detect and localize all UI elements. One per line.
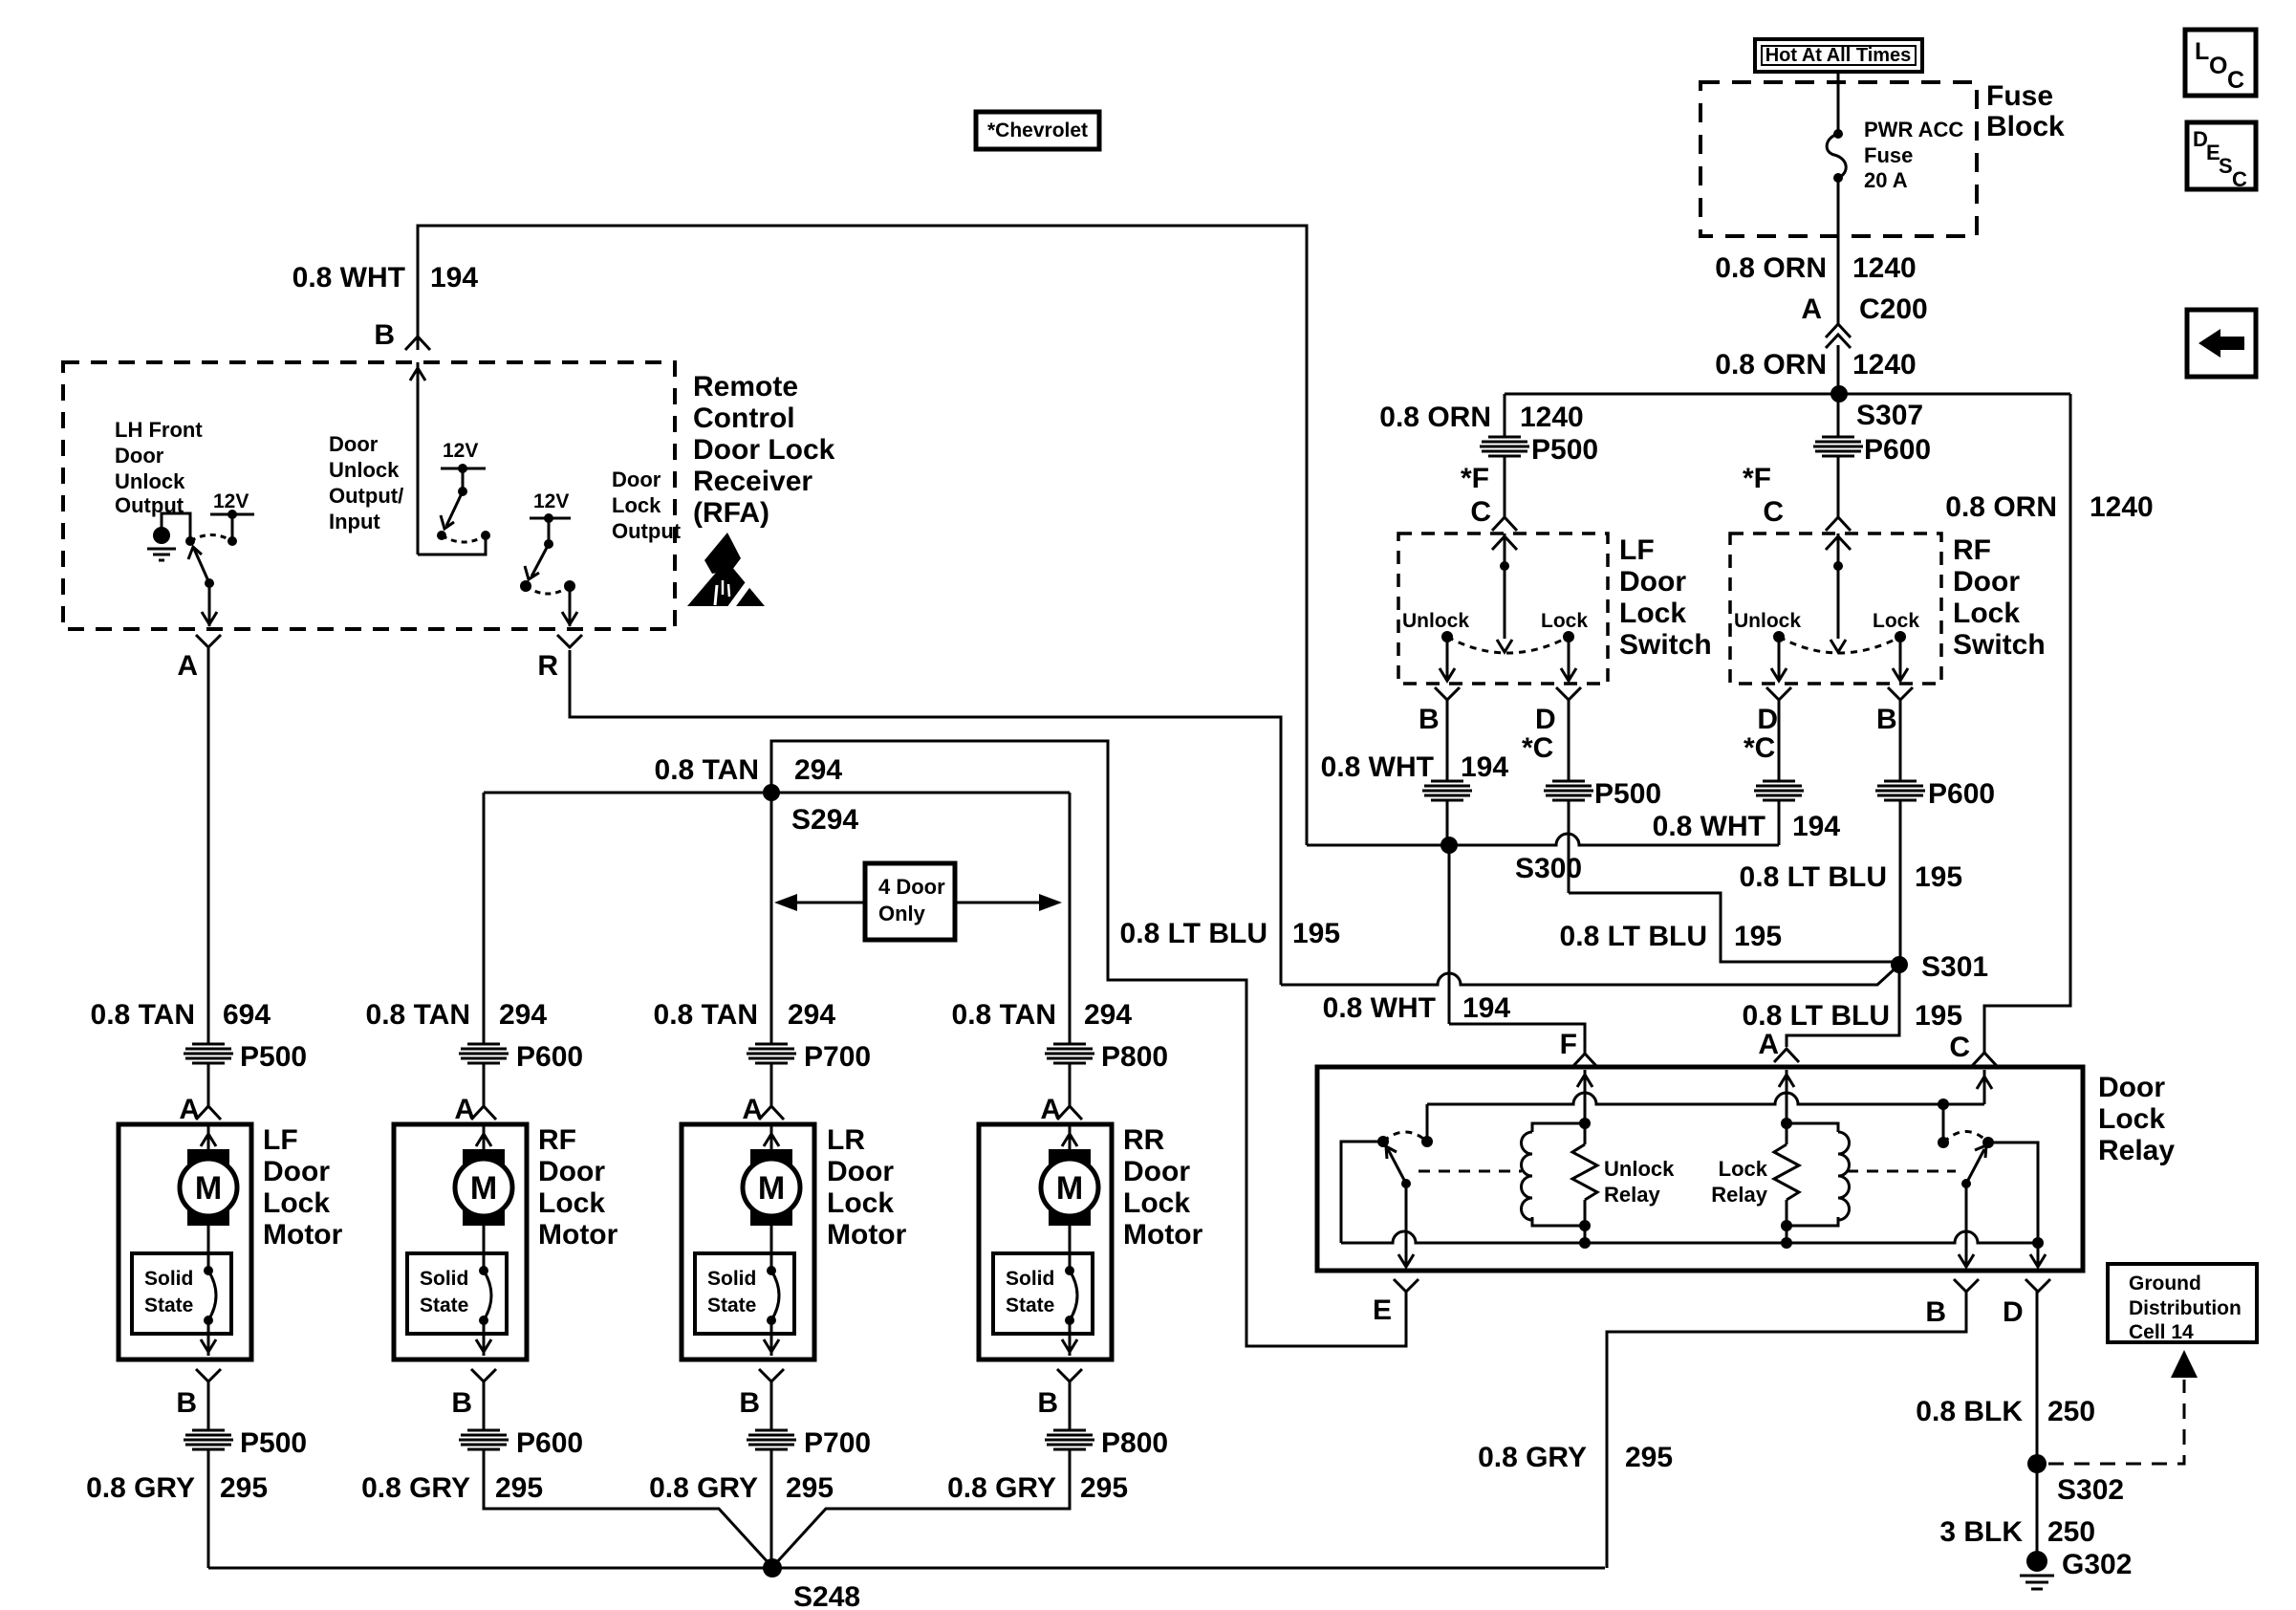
- svg-text:*F: *F: [1461, 463, 1489, 494]
- terminal D (relay): [2003, 1279, 2050, 1328]
- 12V source (LH unlock switch): [210, 490, 254, 546]
- svg-text:State: State: [420, 1295, 468, 1316]
- svg-text:A: A: [1801, 294, 1822, 325]
- svg-text:LF: LF: [263, 1124, 298, 1156]
- svg-text:Door: Door: [827, 1156, 894, 1187]
- LOC page tab: [2185, 30, 2256, 96]
- svg-text:295: 295: [495, 1472, 543, 1504]
- svg-text:Unlock: Unlock: [1402, 610, 1469, 632]
- splice S302: [2027, 1454, 2124, 1506]
- svg-text:D: D: [1757, 704, 1778, 735]
- svg-text:PWR ACC: PWR ACC: [1864, 118, 1963, 141]
- svg-text:Fuse: Fuse: [1986, 80, 2053, 112]
- 12V source (door lock output switch): [530, 490, 571, 549]
- svg-text:*F: *F: [1743, 463, 1771, 494]
- terminal C (relay): [1949, 1032, 1997, 1066]
- svg-text:Door: Door: [1619, 566, 1686, 598]
- terminal R (receiver): [537, 635, 582, 682]
- svg-text:A: A: [1040, 1094, 1061, 1125]
- svg-text:0.8 GRY: 0.8 GRY: [947, 1472, 1056, 1504]
- svg-text:P700: P700: [804, 1041, 871, 1073]
- svg-text:295: 295: [1625, 1442, 1673, 1473]
- svg-text:0.8 GRY: 0.8 GRY: [649, 1472, 758, 1504]
- svg-text:C: C: [1949, 1032, 1970, 1063]
- svg-text:R: R: [537, 650, 558, 682]
- svg-text:0.8 LT BLU: 0.8 LT BLU: [1120, 918, 1267, 949]
- svg-text:B: B: [176, 1387, 197, 1419]
- svg-text:Remote: Remote: [693, 371, 798, 402]
- svg-text:(RFA): (RFA): [693, 497, 769, 529]
- wire LF-D lt blu 195 to S301: [1544, 700, 1898, 962]
- ground G302: [2020, 1549, 2132, 1589]
- LH front door unlock output label: [115, 418, 203, 517]
- svg-text:Solid: Solid: [1006, 1268, 1054, 1290]
- svg-text:M: M: [195, 1170, 222, 1207]
- svg-text:0.8 LT BLU: 0.8 LT BLU: [1560, 921, 1707, 952]
- svg-text:P500: P500: [1594, 778, 1661, 810]
- wire LF-B GRY 295 to S248: [86, 1382, 307, 1568]
- svg-text:Door: Door: [329, 432, 379, 456]
- svg-text:State: State: [707, 1295, 756, 1316]
- wire LR-B GRY 295 to S248: [649, 1382, 871, 1568]
- svg-text:Switch: Switch: [1619, 629, 1712, 661]
- Fuse Block label: [1986, 80, 2065, 142]
- svg-text:694: 694: [223, 999, 271, 1031]
- svg-text:Lock: Lock: [1541, 610, 1588, 632]
- connector P500 (LF switch C): [1480, 434, 1598, 466]
- svg-text:Receiver: Receiver: [693, 466, 812, 497]
- svg-text:294: 294: [788, 999, 835, 1031]
- wire S294 line to RR motor TAN 294: [952, 793, 1133, 1044]
- fuse PWR ACC 20A: [1827, 118, 1963, 192]
- svg-text:Unlock: Unlock: [1734, 610, 1801, 632]
- Ground Distribution Cell 14 box: [2108, 1264, 2257, 1343]
- svg-text:P500: P500: [1531, 434, 1598, 466]
- svg-text:Lock: Lock: [263, 1187, 330, 1219]
- relay inner top wire (C to switches): [1427, 1093, 1984, 1142]
- relay bottom bus: [1341, 1231, 2038, 1249]
- svg-text:C: C: [1763, 496, 1784, 528]
- RF switch common feed: [1826, 533, 1851, 652]
- svg-text:B: B: [451, 1387, 472, 1419]
- connector P500 (LF motor A): [184, 1041, 307, 1106]
- relay right contact to D lead: [1988, 1142, 2046, 1267]
- svg-text:Lock: Lock: [1719, 1157, 1768, 1181]
- svg-text:Solid: Solid: [420, 1268, 468, 1290]
- Door Lock Relay box: [1317, 1067, 2083, 1271]
- terminal A (relay): [1758, 1029, 1799, 1062]
- svg-text:Door: Door: [263, 1156, 330, 1187]
- wire: battery feed into fuse block: [1837, 72, 1840, 134]
- svg-text:E: E: [1373, 1295, 1392, 1326]
- wire S301 to relay A: [1743, 965, 1963, 1047]
- LF motor M: [180, 1126, 237, 1271]
- svg-text:0.8 GRY: 0.8 GRY: [86, 1472, 195, 1504]
- svg-text:Lock: Lock: [1619, 598, 1686, 629]
- svg-text:195: 195: [1915, 1000, 1962, 1032]
- terminal F (relay): [1560, 1029, 1597, 1067]
- svg-text:S: S: [2219, 154, 2233, 178]
- relay right switch (lock side): [1938, 1132, 1994, 1268]
- terminal C (RF switch): [1763, 496, 1851, 531]
- RF switch unlock output arrow: [1771, 637, 1787, 681]
- svg-text:295: 295: [786, 1472, 834, 1504]
- svg-text:State: State: [144, 1295, 193, 1316]
- RF motor M: [455, 1126, 512, 1271]
- svg-text:1240: 1240: [1852, 252, 1917, 284]
- svg-text:Ground: Ground: [2129, 1273, 2201, 1295]
- svg-text:RF: RF: [538, 1124, 576, 1156]
- LR Door Lock Motor box: [682, 1124, 907, 1360]
- svg-text:Output: Output: [612, 519, 682, 543]
- wire S300 to relay F: [1323, 845, 1585, 1054]
- lock relay resistor: [1711, 1123, 1799, 1243]
- svg-text:RR: RR: [1123, 1124, 1165, 1156]
- wire below P600 to C: [1837, 456, 1840, 517]
- svg-text:Motor: Motor: [538, 1219, 618, 1251]
- svg-text:12V: 12V: [533, 490, 569, 512]
- svg-text:P500: P500: [240, 1041, 307, 1073]
- svg-text:Lock: Lock: [538, 1187, 605, 1219]
- svg-text:0.8 GRY: 0.8 GRY: [361, 1472, 470, 1504]
- svg-text:Fuse: Fuse: [1864, 143, 1913, 167]
- label 0.8 ORN 1240: [1715, 252, 1916, 284]
- svg-text:S294: S294: [791, 804, 858, 836]
- svg-text:Relay: Relay: [1711, 1183, 1767, 1207]
- svg-text:G302: G302: [2062, 1549, 2132, 1580]
- wire relay B GRY 295 to S248: [1478, 1292, 1966, 1568]
- LF switch unlock output arrow: [1440, 637, 1455, 681]
- svg-text:Door: Door: [1953, 566, 2020, 598]
- Fuse Block (dashed): [1700, 82, 1977, 236]
- svg-text:B: B: [374, 319, 395, 351]
- svg-text:P600: P600: [516, 1041, 583, 1073]
- svg-text:S301: S301: [1921, 951, 1988, 983]
- wire RF-D white 194 joins S300 line: [1653, 700, 1841, 845]
- connector P600 (RF motor A): [459, 1041, 583, 1106]
- door lock output label: [612, 468, 682, 543]
- Hot At All Times box: [1755, 39, 1922, 72]
- door unlock output/input label: [329, 432, 403, 533]
- LF switch label: [1619, 534, 1712, 661]
- svg-text:250: 250: [2047, 1516, 2095, 1548]
- svg-text:B: B: [1876, 704, 1897, 735]
- svg-text:A: A: [454, 1094, 475, 1125]
- svg-text:Unlock: Unlock: [329, 458, 400, 482]
- svg-text:Output/: Output/: [329, 484, 403, 508]
- svg-text:0.8 WHT: 0.8 WHT: [1653, 811, 1765, 842]
- svg-text:Door Lock: Door Lock: [693, 434, 835, 466]
- terminal A (receiver): [177, 635, 221, 682]
- svg-text:0.8 BLK: 0.8 BLK: [1916, 1396, 2023, 1427]
- svg-text:Solid: Solid: [144, 1268, 193, 1290]
- svg-text:194: 194: [430, 262, 478, 294]
- RR motor M: [1041, 1126, 1098, 1271]
- svg-text:194: 194: [1461, 751, 1508, 783]
- svg-text:B: B: [1419, 704, 1440, 735]
- svg-text:295: 295: [220, 1472, 268, 1504]
- svg-text:0.8 ORN: 0.8 ORN: [1715, 252, 1827, 284]
- wire: fuse output ORN 1240: [1837, 178, 1840, 324]
- svg-text:1240: 1240: [1852, 349, 1917, 381]
- receiver B lead internal: [410, 362, 486, 555]
- terminal B (RF motor): [451, 1369, 496, 1419]
- label 0.8 ORN 1240 (right): [1945, 491, 2153, 523]
- svg-text:0.8 WHT: 0.8 WHT: [1321, 751, 1434, 783]
- svg-text:P700: P700: [804, 1427, 871, 1459]
- svg-text:L: L: [2195, 38, 2209, 65]
- terminal B (RR motor): [1037, 1369, 1082, 1419]
- svg-text:Relay: Relay: [2098, 1135, 2175, 1166]
- wire: ORN 1240 below C200: [1837, 345, 1840, 394]
- relay F lead (inside): [1577, 1070, 1592, 1123]
- Chevrolet label box: [976, 112, 1099, 149]
- svg-text:295: 295: [1080, 1472, 1128, 1504]
- svg-text:Door: Door: [612, 468, 661, 491]
- svg-text:3 BLK: 3 BLK: [1939, 1516, 2023, 1548]
- svg-text:0.8 TAN: 0.8 TAN: [952, 999, 1056, 1031]
- svg-text:1240: 1240: [1520, 402, 1584, 433]
- svg-text:A: A: [742, 1094, 763, 1125]
- relay left switch (unlock side): [1341, 1132, 1433, 1267]
- wire S294 to LR motor TAN 294: [654, 793, 836, 1044]
- svg-text:LR: LR: [827, 1124, 865, 1156]
- svg-text:0.8 TAN: 0.8 TAN: [366, 999, 470, 1031]
- svg-text:P600: P600: [1864, 434, 1931, 466]
- svg-text:194: 194: [1462, 992, 1510, 1024]
- label 0.8 ORN 1240 (LF): [1379, 402, 1583, 433]
- terminal C (LF switch): [1470, 496, 1517, 531]
- receiver label: [693, 371, 835, 529]
- svg-text:Lock: Lock: [827, 1187, 894, 1219]
- svg-text:Motor: Motor: [263, 1219, 343, 1251]
- relay A lead (inside): [1779, 1070, 1794, 1123]
- svg-text:LH Front: LH Front: [115, 418, 203, 442]
- svg-text:Hot At All Times: Hot At All Times: [1765, 45, 1912, 66]
- svg-text:250: 250: [2047, 1396, 2095, 1427]
- RF switch lock output arrow: [1893, 637, 1908, 681]
- svg-text:B: B: [739, 1387, 760, 1419]
- svg-text:Door: Door: [115, 444, 164, 468]
- svg-text:LF: LF: [1619, 534, 1655, 566]
- svg-text:S302: S302: [2057, 1474, 2124, 1506]
- svg-text:Lock: Lock: [612, 493, 661, 517]
- terminal A (RR motor): [1040, 1094, 1082, 1125]
- LF switch pins B and D: [1419, 687, 1581, 764]
- svg-text:S300: S300: [1515, 853, 1582, 884]
- svg-text:1240: 1240: [2090, 491, 2154, 523]
- svg-text:Control: Control: [693, 402, 795, 434]
- LH unlock switch arm: [188, 535, 232, 627]
- svg-text:Input: Input: [329, 510, 380, 533]
- Remote Control Door Lock Receiver box (dashed): [63, 362, 675, 629]
- svg-text:0.8 ORN: 0.8 ORN: [1715, 349, 1827, 381]
- svg-text:C: C: [2227, 67, 2244, 94]
- RF Door Lock Switch box (dashed): [1730, 533, 1941, 684]
- LF solid state switch: [132, 1253, 231, 1356]
- svg-text:F: F: [1560, 1029, 1577, 1060]
- svg-text:0.8 TAN: 0.8 TAN: [654, 999, 758, 1031]
- svg-text:294: 294: [499, 999, 547, 1031]
- svg-text:Only: Only: [878, 902, 926, 925]
- relay linkage dashed: [1419, 1170, 1956, 1173]
- wire relay E to S294 (unlock feed): [771, 741, 1406, 1346]
- dashed link S302 to ground distribution: [2048, 1350, 2198, 1464]
- svg-text:*C: *C: [1522, 732, 1553, 764]
- connector P700 (LR motor A): [747, 1041, 871, 1106]
- LR motor M: [743, 1126, 800, 1271]
- svg-text:195: 195: [1292, 918, 1340, 949]
- svg-text:P500: P500: [240, 1427, 307, 1459]
- splice S294: [655, 754, 859, 836]
- svg-text:D: D: [1535, 704, 1556, 735]
- RF solid state switch: [407, 1253, 507, 1356]
- svg-text:195: 195: [1734, 921, 1782, 952]
- wire S294 branch line to RR: [484, 792, 1070, 794]
- svg-text:0.8 TAN: 0.8 TAN: [655, 754, 759, 786]
- svg-text:O: O: [2209, 53, 2227, 79]
- RR solid state switch: [993, 1253, 1093, 1356]
- connector P600 (RF switch C): [1813, 434, 1931, 466]
- connector C200 pin A: [1801, 294, 1927, 348]
- back arrow box: [2187, 310, 2256, 377]
- relay C lead (inside): [1977, 1070, 1992, 1104]
- terminal B (relay): [1925, 1279, 1979, 1328]
- svg-text:A: A: [177, 650, 198, 682]
- svg-text:C: C: [2232, 167, 2247, 191]
- splice S301: [1891, 951, 1988, 983]
- svg-text:4 Door: 4 Door: [878, 875, 945, 899]
- terminal E (relay): [1373, 1279, 1419, 1326]
- svg-text:0.8 GRY: 0.8 GRY: [1478, 1442, 1587, 1473]
- Door Lock Relay label: [2098, 1072, 2175, 1166]
- RF switch label: [1953, 534, 2046, 661]
- LF switch lock output arrow: [1561, 637, 1576, 681]
- svg-text:294: 294: [1084, 999, 1132, 1031]
- splice S300: [1307, 834, 1779, 884]
- svg-text:Lock: Lock: [1873, 610, 1919, 632]
- unlock relay coil: [1522, 1118, 1591, 1231]
- connector P800 (RR motor A): [1045, 1041, 1168, 1106]
- svg-text:Motor: Motor: [827, 1219, 907, 1251]
- LF Door Lock Motor box: [119, 1124, 343, 1360]
- wire B receiver WHT 194 top run: [292, 226, 1307, 845]
- svg-text:195: 195: [1915, 861, 1962, 893]
- LR solid state switch: [695, 1253, 794, 1356]
- LF switch contacts: [1402, 610, 1588, 653]
- svg-text:RF: RF: [1953, 534, 1991, 566]
- svg-text:Door: Door: [2098, 1072, 2165, 1103]
- lock relay coil: [1781, 1118, 1850, 1231]
- svg-text:P800: P800: [1101, 1427, 1168, 1459]
- terminal B (receiver): [374, 319, 430, 351]
- wire RF-B lt blu 195 to S301: [1740, 700, 1996, 965]
- wire: ORN to LF door lock switch: [1504, 394, 1506, 437]
- svg-text:Door: Door: [1123, 1156, 1190, 1187]
- wire LF-B white 194 to S300: [1321, 700, 1509, 845]
- svg-text:M: M: [470, 1170, 497, 1207]
- svg-text:A: A: [179, 1094, 200, 1125]
- terminal A (RF motor): [454, 1094, 496, 1125]
- svg-text:C: C: [1470, 496, 1491, 528]
- svg-text:0.8 WHT: 0.8 WHT: [1323, 992, 1436, 1024]
- unlock relay resistor: [1572, 1123, 1675, 1243]
- 12V source (unlock output/input switch): [441, 440, 486, 496]
- terminal A (LF motor): [179, 1094, 221, 1125]
- svg-text:State: State: [1006, 1295, 1054, 1316]
- svg-text:*Chevrolet: *Chevrolet: [987, 120, 1088, 141]
- svg-text:M: M: [1056, 1170, 1083, 1207]
- wire RR-B GRY 295 to S248: [774, 1382, 1168, 1565]
- splice S248 ground bus: [208, 1558, 1605, 1610]
- svg-text:Motor: Motor: [1123, 1219, 1203, 1251]
- LF Door Lock Switch box (dashed): [1398, 533, 1608, 684]
- terminal B (LF motor): [176, 1369, 221, 1419]
- svg-text:Block: Block: [1986, 111, 2065, 142]
- LH unlock switch ground: [147, 513, 195, 560]
- LF switch common feed: [1492, 533, 1517, 652]
- wire RF-B GRY 295 to S248: [361, 1382, 770, 1565]
- terminal B (LR motor): [739, 1369, 784, 1419]
- svg-text:0.8 TAN: 0.8 TAN: [91, 999, 195, 1031]
- svg-text:0.8 WHT: 0.8 WHT: [292, 262, 405, 294]
- svg-text:Lock: Lock: [2098, 1103, 2165, 1135]
- svg-text:Solid: Solid: [707, 1268, 756, 1290]
- RF Door Lock Motor box: [394, 1124, 618, 1360]
- wire S294 to RF motor TAN 294: [366, 793, 548, 1044]
- svg-text:Lock: Lock: [1123, 1187, 1190, 1219]
- svg-text:Distribution: Distribution: [2129, 1297, 2242, 1319]
- svg-text:0.8 LT BLU: 0.8 LT BLU: [1743, 1000, 1890, 1032]
- svg-text:P600: P600: [516, 1427, 583, 1459]
- svg-text:0.8 LT BLU: 0.8 LT BLU: [1740, 861, 1887, 893]
- wire ORN 1240 to relay C: [1984, 394, 2070, 1053]
- splice S307: [1505, 385, 2070, 431]
- wire: ORN to RF door lock switch: [1837, 394, 1840, 437]
- svg-text:20 A: 20 A: [1864, 168, 1908, 192]
- svg-text:C200: C200: [1859, 294, 1928, 325]
- svg-text:S307: S307: [1856, 400, 1923, 431]
- 4 Door Only callout: [774, 863, 1062, 940]
- svg-text:S248: S248: [793, 1581, 860, 1610]
- svg-text:12V: 12V: [213, 490, 249, 512]
- unlock output/input switch arm: [437, 491, 490, 542]
- RR Door Lock Motor box: [979, 1124, 1203, 1360]
- ESD warning symbol: [687, 533, 768, 618]
- svg-text:0.8 ORN: 0.8 ORN: [1379, 402, 1491, 433]
- svg-text:Door: Door: [538, 1156, 605, 1187]
- svg-text:194: 194: [1792, 811, 1840, 842]
- svg-text:0.8 ORN: 0.8 ORN: [1945, 491, 2057, 523]
- svg-text:Switch: Switch: [1953, 629, 2046, 661]
- svg-text:B: B: [1037, 1387, 1058, 1419]
- svg-text:294: 294: [794, 754, 842, 786]
- svg-text:Lock: Lock: [1953, 598, 2020, 629]
- RF switch pins D and B: [1744, 687, 1913, 764]
- wire below P500 to C: [1504, 456, 1506, 517]
- wire R receiver LT BLU 195 to S301: [570, 650, 1899, 985]
- svg-text:A: A: [1758, 1029, 1779, 1060]
- svg-text:Relay: Relay: [1604, 1183, 1660, 1207]
- svg-text:M: M: [758, 1170, 785, 1207]
- svg-text:P800: P800: [1101, 1041, 1168, 1073]
- label 0.8 ORN 1240 (2): [1715, 349, 1916, 381]
- svg-text:Unlock: Unlock: [115, 469, 185, 493]
- svg-text:Unlock: Unlock: [1604, 1157, 1675, 1181]
- svg-text:*C: *C: [1744, 732, 1775, 764]
- svg-text:B: B: [1925, 1296, 1946, 1328]
- svg-text:Cell 14: Cell 14: [2129, 1321, 2194, 1343]
